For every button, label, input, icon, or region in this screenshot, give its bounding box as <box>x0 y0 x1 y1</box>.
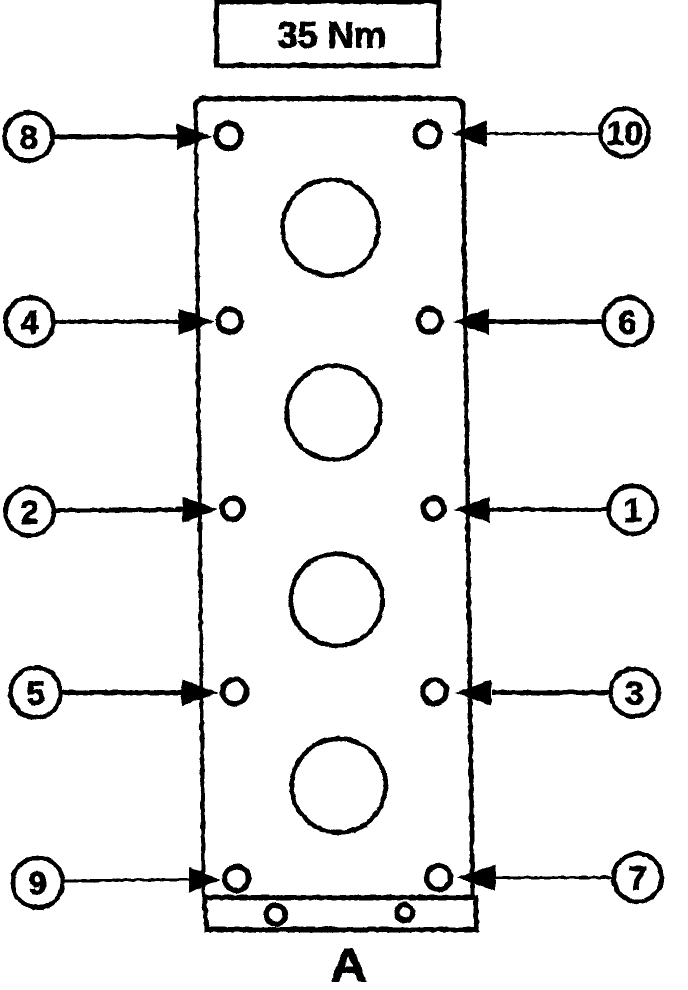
svg-text:5: 5 <box>26 674 44 711</box>
callout 3 (bolt R4) <box>454 668 658 716</box>
callout 9 (bolt L5) <box>12 857 220 907</box>
cylinder bore 2 <box>286 365 380 459</box>
bolt hole R4 <box>422 679 446 703</box>
bolt hole L2 <box>218 309 241 332</box>
callout 4 (bolt L2) <box>5 297 214 345</box>
bolt hole L4 <box>222 679 246 703</box>
torque value box 35 Nm <box>216 1 438 65</box>
svg-text:3: 3 <box>625 674 643 711</box>
bolt hole R3 <box>423 498 444 519</box>
callout 1 (bolt R3) <box>453 485 656 533</box>
svg-text:9: 9 <box>28 864 46 901</box>
flange hole right <box>396 904 412 920</box>
svg-text:35 Nm: 35 Nm <box>277 14 386 55</box>
view label A <box>330 939 367 990</box>
cylinder bore 4 <box>291 738 385 832</box>
cylinder bore 3 <box>290 553 382 645</box>
bottom flange strip <box>204 897 476 929</box>
bolt hole R1 <box>415 122 440 147</box>
callout 8 (bolt L1) <box>4 112 212 160</box>
bolt hole L3 <box>222 498 243 519</box>
svg-text:6: 6 <box>618 303 636 340</box>
callout 10 (bolt R1) <box>451 108 648 156</box>
callout 2 (bolt L3) <box>5 487 217 535</box>
bolt hole L1 <box>216 123 241 148</box>
flange hole left <box>266 905 285 924</box>
svg-text:2: 2 <box>20 493 38 530</box>
bolt hole R2 <box>418 309 441 332</box>
svg-text:4: 4 <box>20 303 39 340</box>
svg-text:10: 10 <box>606 114 643 151</box>
svg-text:A: A <box>330 939 367 990</box>
callout 7 (bolt R5) <box>456 853 661 901</box>
svg-text:8: 8 <box>19 118 37 155</box>
callout 6 (bolt R2) <box>452 297 651 345</box>
svg-text:1: 1 <box>623 491 641 528</box>
bolt hole R5 <box>426 865 450 889</box>
callout 5 (bolt L4) <box>10 667 218 717</box>
svg-text:7: 7 <box>628 859 646 896</box>
cylinder bore 1 <box>282 179 378 275</box>
cylinder head outline <box>195 98 472 897</box>
bolt hole L5 <box>224 866 248 890</box>
